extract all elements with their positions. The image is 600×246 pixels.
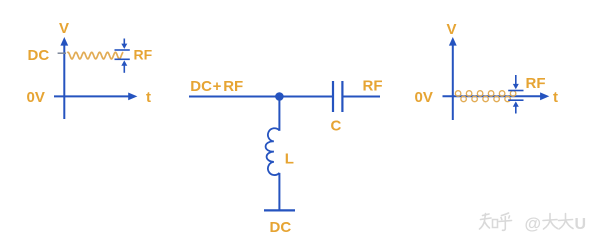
node junction dot bbox=[275, 92, 284, 101]
left graph: V axis arrowhead bbox=[60, 37, 68, 46]
svg-text:@: @ bbox=[525, 214, 542, 233]
right graph: V axis arrowhead bbox=[449, 37, 457, 46]
svg-text:t: t bbox=[146, 89, 151, 106]
svg-text:RF: RF bbox=[134, 47, 153, 63]
left graph: V axis line bbox=[63, 45, 65, 119]
right graph: t axis line bbox=[443, 95, 542, 97]
left graph: DC+RF waveform bbox=[67, 52, 123, 59]
svg-text:V: V bbox=[447, 21, 457, 38]
capacitor C right plate bbox=[341, 81, 343, 112]
svg-text:RF: RF bbox=[363, 77, 383, 94]
svg-text:C: C bbox=[331, 117, 342, 134]
left graph: t axis arrowhead bbox=[128, 93, 137, 101]
wire: input to capacitor bbox=[189, 96, 332, 98]
wire: junction down to inductor bbox=[278, 97, 280, 131]
svg-text:RF: RF bbox=[223, 78, 243, 95]
inductor L coil bbox=[266, 128, 280, 175]
svg-text:t: t bbox=[553, 89, 558, 106]
svg-text:0V: 0V bbox=[27, 89, 45, 106]
svg-text:V: V bbox=[59, 20, 69, 37]
wire: capacitor to RF output bbox=[344, 96, 381, 98]
svg-text:L: L bbox=[285, 151, 294, 168]
svg-text:U: U bbox=[575, 216, 587, 233]
svg-text:DC: DC bbox=[28, 47, 50, 64]
svg-text:0V: 0V bbox=[415, 89, 433, 106]
svg-text:RF: RF bbox=[526, 75, 546, 92]
svg-text:+: + bbox=[213, 78, 222, 95]
DC terminal bar bbox=[264, 209, 295, 211]
right graph: RF ripple waveform bbox=[455, 91, 515, 102]
right graph: V axis line bbox=[452, 45, 454, 120]
left graph: t axis line bbox=[54, 95, 129, 97]
left graph: DC level tick on axis bbox=[58, 52, 66, 54]
left graph: RF amplitude marker arrows and ticks bbox=[115, 39, 130, 73]
svg-text:DC: DC bbox=[190, 78, 212, 95]
capacitor C left plate bbox=[332, 81, 334, 112]
wire: inductor to DC terminal bbox=[278, 173, 280, 211]
right graph: t axis arrowhead bbox=[540, 92, 549, 100]
svg-text:DC: DC bbox=[270, 219, 292, 236]
right graph: RF amplitude marker arrows and ticks bbox=[508, 75, 523, 114]
watermark: zhihu @dadaU bbox=[480, 213, 512, 230]
